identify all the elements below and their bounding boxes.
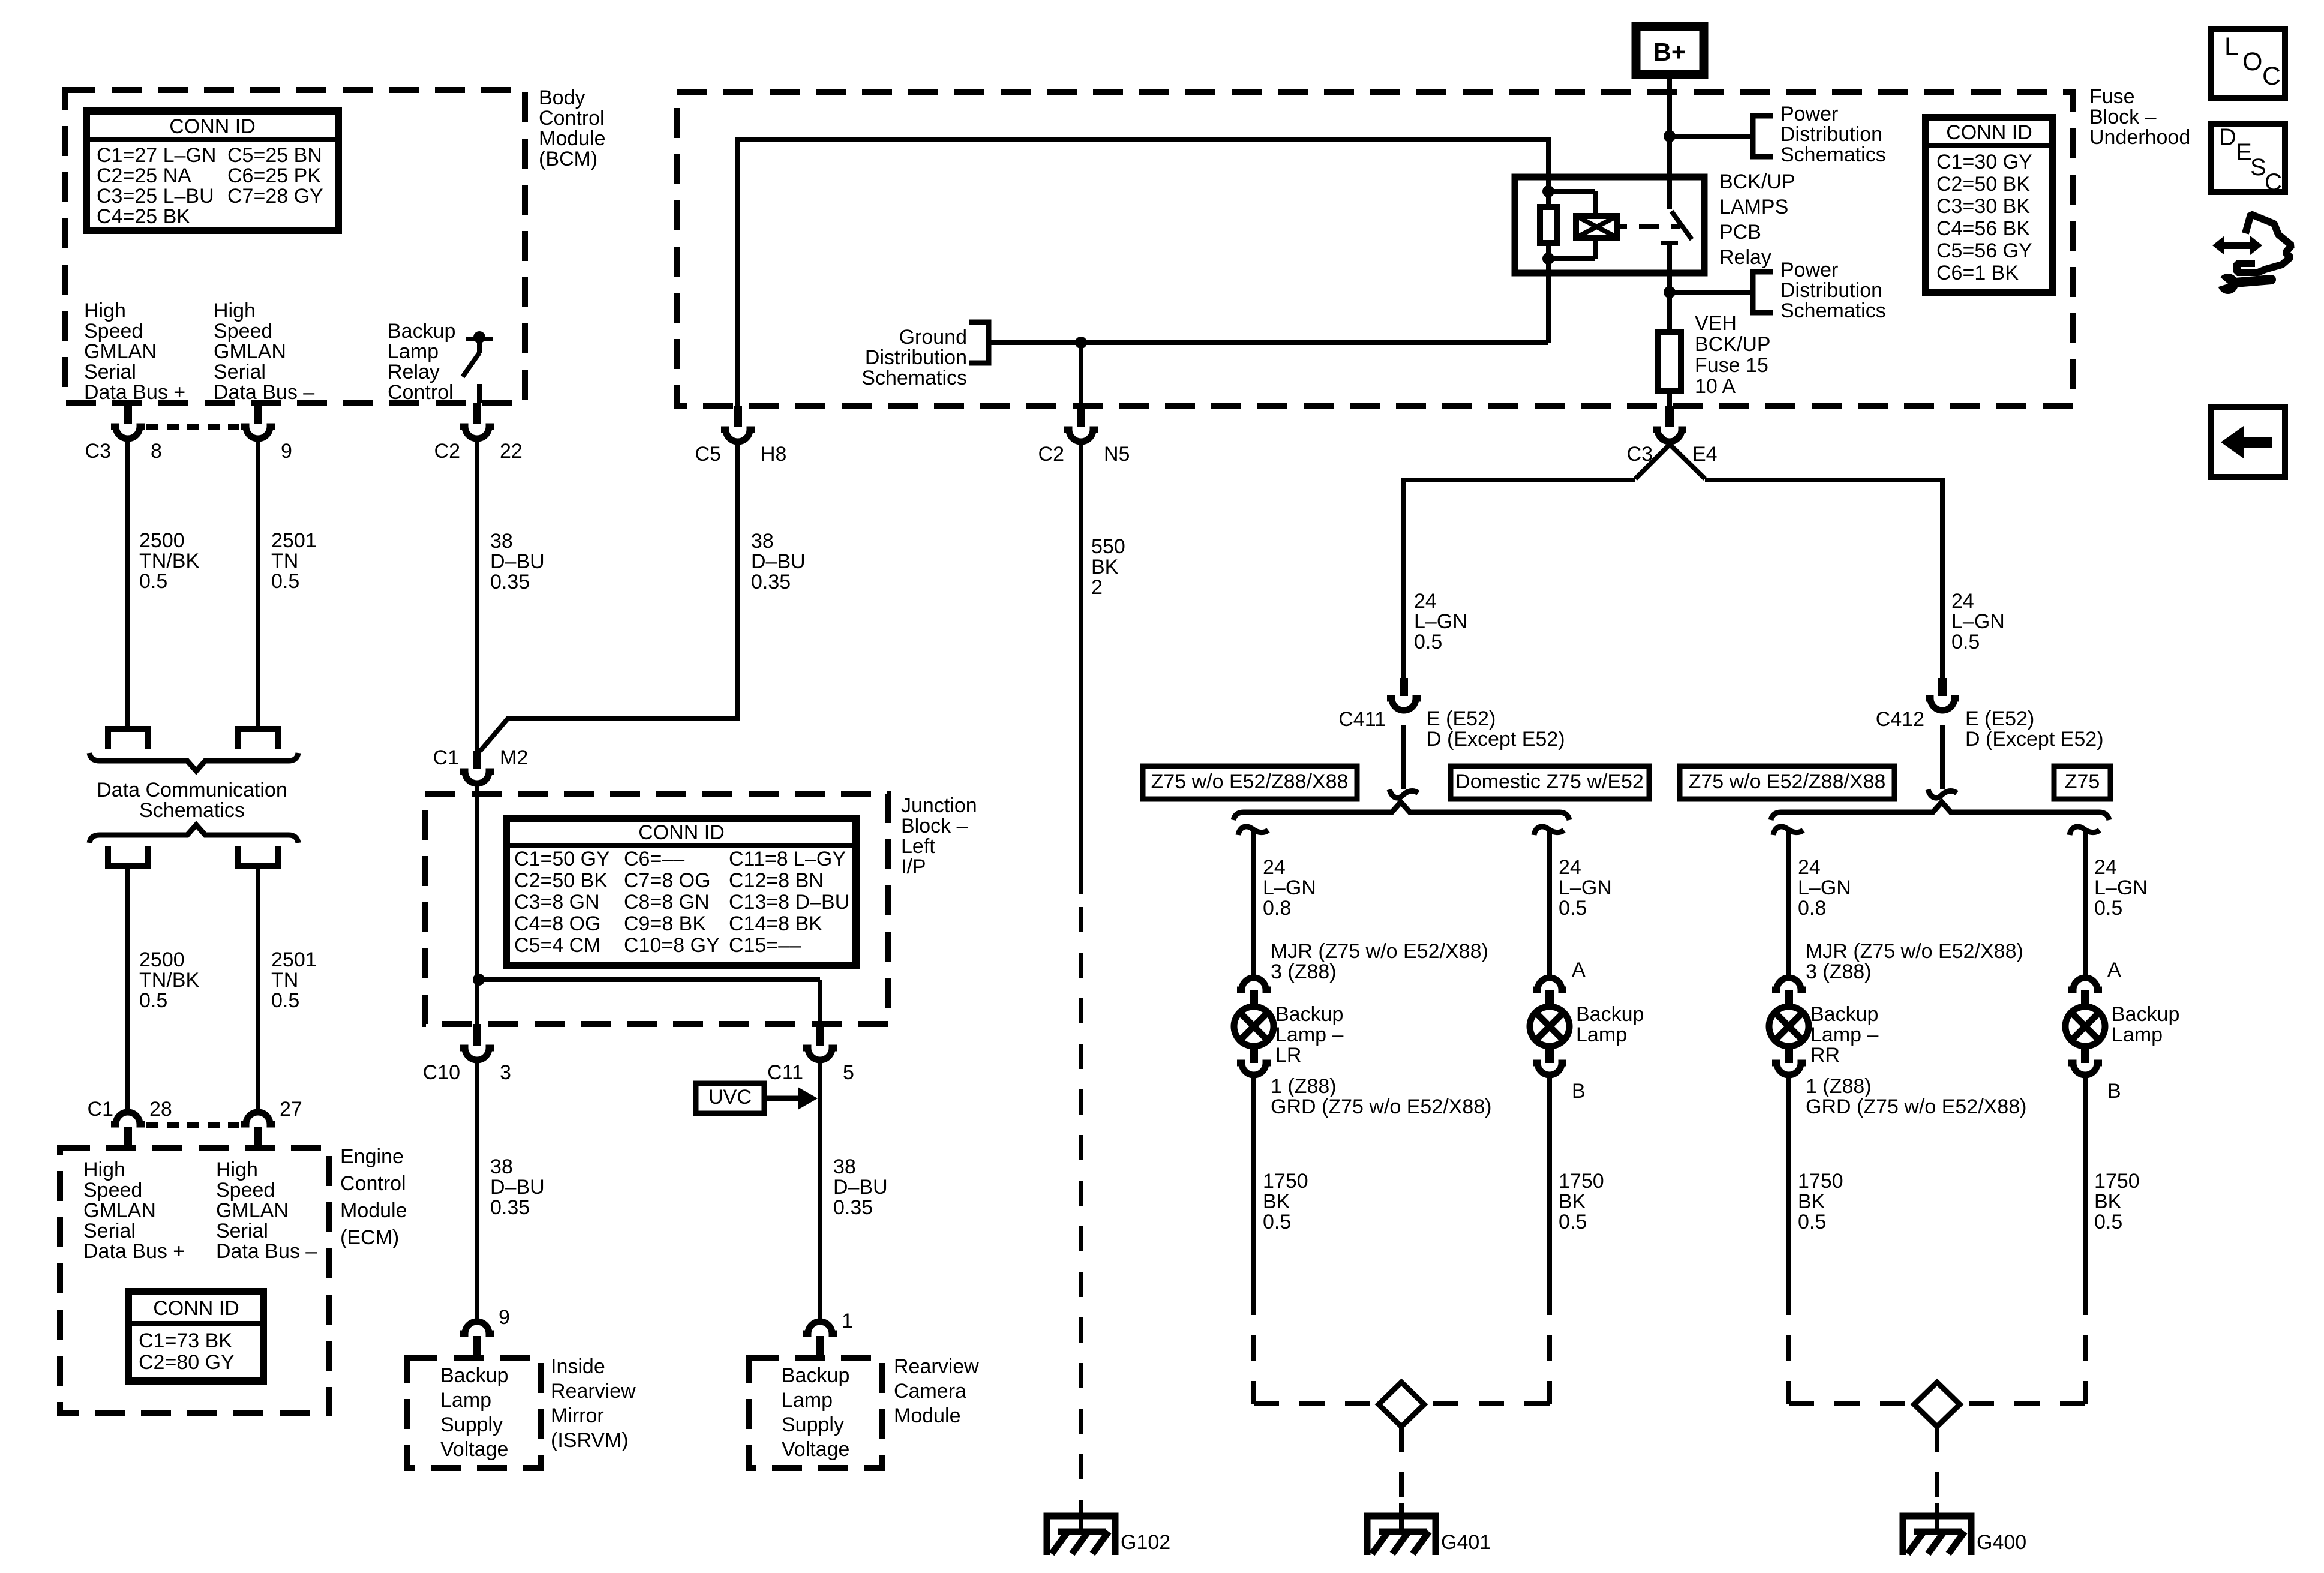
fuse block CONN ID table xyxy=(1926,118,2053,293)
svg-text:BCK/UP: BCK/UP xyxy=(1695,333,1771,356)
svg-text:Junction: Junction xyxy=(901,794,977,817)
svg-text:Lamp: Lamp xyxy=(782,1389,833,1412)
svg-text:C2: C2 xyxy=(1038,443,1064,466)
svg-text:Mirror: Mirror xyxy=(551,1404,604,1427)
svg-text:C6=1 BK: C6=1 BK xyxy=(1936,262,2019,284)
dashed connector link 8-9 xyxy=(146,424,239,430)
svg-text:Lamp –: Lamp – xyxy=(1810,1023,1878,1046)
connector C3 pin 8 (BCM) xyxy=(124,403,132,424)
svg-text:0.35: 0.35 xyxy=(490,1196,530,1219)
UVC arrow xyxy=(764,1096,801,1101)
svg-text:2501: 2501 xyxy=(271,948,317,971)
svg-text:Serial: Serial xyxy=(216,1220,268,1242)
svg-text:CONN ID: CONN ID xyxy=(169,115,256,138)
svg-text:Lamp: Lamp xyxy=(440,1389,491,1412)
svg-text:0.5: 0.5 xyxy=(1559,897,1587,920)
svg-text:C4=56 BK: C4=56 BK xyxy=(1936,217,2030,240)
svg-text:Z75 w/o E52/Z88/X88: Z75 w/o E52/Z88/X88 xyxy=(1689,770,1886,793)
connector C11 pin 5 (junction block) xyxy=(816,1024,824,1046)
backup lamp (domestic LR) xyxy=(1533,978,1566,990)
svg-text:GRD (Z75 w/o E52/X88): GRD (Z75 w/o E52/X88) xyxy=(1806,1095,2026,1118)
connector C3 pin E4 (fuse block) xyxy=(1665,406,1674,427)
camera dashed box: Backup Lamp Supply Voltage xyxy=(749,1358,882,1468)
junction block CONN ID table xyxy=(506,818,856,966)
svg-text:Speed: Speed xyxy=(83,1179,142,1202)
svg-text:MJR (Z75 w/o E52/X88): MJR (Z75 w/o E52/X88) xyxy=(1806,940,2023,963)
connector pin 1 (camera) xyxy=(816,1336,824,1358)
svg-text:0.5: 0.5 xyxy=(139,570,167,593)
svg-text:I/P: I/P xyxy=(901,855,926,878)
Junction Block - Left I/P dashed box xyxy=(425,794,888,1024)
svg-text:C4=8 OG: C4=8 OG xyxy=(514,912,601,935)
svg-text:0.8: 0.8 xyxy=(1263,897,1291,920)
relay coil xyxy=(1548,189,1595,194)
svg-text:L–GN: L–GN xyxy=(1263,876,1316,899)
X splice under E4 xyxy=(1635,430,1685,479)
svg-text:0.5: 0.5 xyxy=(2094,897,2122,920)
brace from Data Communication Schematics (lower) xyxy=(89,825,298,843)
svg-text:D (Except E52): D (Except E52) xyxy=(1965,728,2104,751)
svg-text:D–BU: D–BU xyxy=(833,1176,888,1199)
svg-text:E (E52): E (E52) xyxy=(1965,707,2034,730)
svg-text:Lamp: Lamp xyxy=(1576,1023,1627,1046)
svg-text:L–GN: L–GN xyxy=(1559,876,1612,899)
svg-text:B: B xyxy=(1572,1080,1586,1103)
svg-text:8: 8 xyxy=(151,440,162,463)
svg-text:Module: Module xyxy=(894,1404,961,1427)
wire 38 D-BU from fuse block C5/H8 xyxy=(480,441,738,751)
Body Control Module (BCM) dashed box xyxy=(65,90,525,403)
svg-text:Control: Control xyxy=(539,107,605,130)
svg-text:24: 24 xyxy=(1414,590,1437,613)
connector C412 xyxy=(1938,678,1947,696)
svg-text:C: C xyxy=(2265,169,2282,196)
connector C2 pin N5 (fuse block) xyxy=(1077,406,1085,427)
svg-text:Module: Module xyxy=(539,127,606,150)
svg-text:C1=50 GY: C1=50 GY xyxy=(514,848,610,870)
svg-text:D–BU: D–BU xyxy=(490,550,545,573)
svg-text:Distribution: Distribution xyxy=(1780,279,1882,302)
svg-text:Voltage: Voltage xyxy=(440,1438,508,1461)
wire 38 D-BU to ISRVM xyxy=(475,1061,479,1322)
Power Distribution Schematics bracket (lower) xyxy=(1753,272,1773,313)
dashed connector link 28-27 xyxy=(146,1122,239,1128)
node to power distribution xyxy=(1664,130,1676,142)
terminal bracket (bus - lower) xyxy=(238,846,278,866)
relay coil feed wire xyxy=(738,140,1548,406)
svg-text:24: 24 xyxy=(2094,856,2117,879)
svg-text:2: 2 xyxy=(1091,576,1103,599)
svg-text:TN: TN xyxy=(271,969,298,992)
svg-text:9: 9 xyxy=(499,1306,510,1329)
svg-text:Schematics: Schematics xyxy=(1780,299,1886,322)
svg-text:H8: H8 xyxy=(761,443,786,466)
svg-text:GMLAN: GMLAN xyxy=(214,340,286,363)
svg-text:0.5: 0.5 xyxy=(1798,1211,1826,1233)
svg-text:BK: BK xyxy=(1559,1190,1586,1213)
connector C1 pin M2 (junction block) xyxy=(473,751,481,769)
svg-text:24: 24 xyxy=(1798,856,1821,879)
svg-text:Schematics: Schematics xyxy=(861,367,967,389)
svg-text:C14=8 BK: C14=8 BK xyxy=(729,912,822,935)
svg-text:Backup: Backup xyxy=(388,320,455,343)
svg-text:Relay: Relay xyxy=(1719,246,1771,269)
wire 2501 TN (bus -) xyxy=(256,440,260,732)
svg-text:C411: C411 xyxy=(1338,708,1386,731)
svg-text:D (Except E52): D (Except E52) xyxy=(1427,728,1565,751)
svg-text:D–BU: D–BU xyxy=(751,550,806,573)
svg-text:Schematics: Schematics xyxy=(1780,143,1886,166)
svg-text:C6=––: C6=–– xyxy=(624,848,684,870)
svg-text:Power: Power xyxy=(1780,259,1838,281)
svg-text:0.5: 0.5 xyxy=(271,570,299,593)
svg-text:MJR (Z75 w/o E52/X88): MJR (Z75 w/o E52/X88) xyxy=(1271,940,1488,963)
svg-text:Domestic Z75 w/E52: Domestic Z75 w/E52 xyxy=(1455,770,1644,793)
svg-text:C11: C11 xyxy=(767,1061,803,1084)
svg-text:GMLAN: GMLAN xyxy=(83,1199,156,1222)
svg-text:Block –: Block – xyxy=(901,815,968,837)
svg-text:0.5: 0.5 xyxy=(139,989,167,1012)
svg-text:Left: Left xyxy=(901,835,935,858)
svg-text:Control: Control xyxy=(388,381,454,404)
svg-text:High: High xyxy=(214,299,256,322)
ground G102 xyxy=(1079,1503,1083,1533)
svg-text:BK: BK xyxy=(1798,1190,1825,1213)
svg-text:Voltage: Voltage xyxy=(782,1438,849,1461)
svg-text:C7=28 GY: C7=28 GY xyxy=(227,185,323,208)
svg-text:C1=27 L–GN: C1=27 L–GN xyxy=(97,144,216,167)
svg-text:High: High xyxy=(84,299,126,322)
svg-text:BK: BK xyxy=(1091,556,1119,578)
svg-text:Backup: Backup xyxy=(1275,1003,1343,1026)
terminal bracket (bus - upper) xyxy=(238,729,278,749)
svg-text:CONN ID: CONN ID xyxy=(638,821,725,844)
svg-text:0.5: 0.5 xyxy=(271,989,299,1012)
backup lamp (domestic RR) xyxy=(2068,978,2102,990)
ground distribution line xyxy=(989,340,1548,345)
wire 24 L-GN branch 1 xyxy=(1251,829,1256,975)
svg-text:Serial: Serial xyxy=(83,1220,136,1242)
wire 24 L-GN branch 2 xyxy=(1547,829,1552,975)
ECM CONN ID table xyxy=(128,1292,263,1381)
backup lamp RR xyxy=(1772,978,1806,990)
option box: Z75 w/o E52/Z88/X88 (left) xyxy=(1143,766,1357,799)
svg-text:Backup: Backup xyxy=(1576,1003,1644,1026)
svg-text:GMLAN: GMLAN xyxy=(84,340,157,363)
svg-text:Schematics: Schematics xyxy=(139,799,245,822)
connector C5 pin H8 (fuse block) xyxy=(734,406,742,427)
svg-text:(ECM): (ECM) xyxy=(340,1226,399,1249)
svg-text:UVC: UVC xyxy=(708,1086,752,1109)
wire 2500 TN/BK to ECM xyxy=(125,866,130,1115)
svg-text:Engine: Engine xyxy=(340,1145,404,1168)
svg-text:G400: G400 xyxy=(1977,1531,2026,1554)
svg-text:Z75: Z75 xyxy=(2065,770,2100,793)
svg-text:0.35: 0.35 xyxy=(490,571,530,593)
svg-text:0.35: 0.35 xyxy=(833,1196,873,1219)
svg-text:1 (Z88): 1 (Z88) xyxy=(1271,1075,1337,1098)
svg-text:C10=8 GY: C10=8 GY xyxy=(624,934,720,957)
svg-text:Inside: Inside xyxy=(551,1355,605,1378)
svg-text:3 (Z88): 3 (Z88) xyxy=(1271,960,1337,983)
svg-text:2501: 2501 xyxy=(271,529,317,552)
svg-text:O: O xyxy=(2242,47,2262,76)
junction node xyxy=(473,974,485,986)
svg-text:C10: C10 xyxy=(423,1061,460,1084)
svg-text:C2=50 BK: C2=50 BK xyxy=(514,869,608,892)
svg-text:C13=8 D–BU: C13=8 D–BU xyxy=(729,891,849,914)
svg-text:38: 38 xyxy=(833,1155,856,1178)
wire relay to fuse xyxy=(1667,273,1672,333)
svg-text:Body: Body xyxy=(539,86,585,109)
option box: Domestic Z75 w/E52 xyxy=(1451,766,1649,799)
brace right lamp pair xyxy=(1771,802,2109,820)
svg-text:C: C xyxy=(2262,62,2281,91)
svg-text:0.5: 0.5 xyxy=(1263,1211,1291,1233)
wire 24 L-GN branch 3 xyxy=(1786,829,1791,975)
svg-text:Fuse: Fuse xyxy=(2089,85,2135,108)
wire 2500 TN/BK (bus +) xyxy=(125,440,130,732)
terminal bracket (bus + lower) xyxy=(108,846,148,866)
svg-text:C6=25 PK: C6=25 PK xyxy=(227,164,321,187)
svg-text:C2: C2 xyxy=(434,440,460,463)
svg-text:L–GN: L–GN xyxy=(1951,610,2005,633)
option box: Z75 xyxy=(2054,766,2110,799)
svg-text:C15=––: C15=–– xyxy=(729,934,801,957)
svg-text:N5: N5 xyxy=(1104,443,1130,466)
svg-text:Distribution: Distribution xyxy=(1780,123,1882,146)
svg-text:C1: C1 xyxy=(433,746,459,769)
ground G400 xyxy=(1935,1503,1939,1533)
svg-text:VEH: VEH xyxy=(1695,312,1737,335)
svg-text:Data Bus –: Data Bus – xyxy=(216,1240,317,1263)
brace left lamp pair xyxy=(1233,802,1569,820)
svg-text:Lamp: Lamp xyxy=(2112,1023,2163,1046)
DESC icon box xyxy=(2211,124,2285,192)
svg-text:550: 550 xyxy=(1091,535,1125,558)
svg-text:L–GN: L–GN xyxy=(1414,610,1467,633)
svg-text:High: High xyxy=(83,1158,125,1181)
svg-text:Underhood: Underhood xyxy=(2089,126,2190,149)
BCM CONN ID table xyxy=(86,111,338,230)
svg-text:Data Bus +: Data Bus + xyxy=(83,1240,185,1263)
svg-text:Speed: Speed xyxy=(214,320,272,343)
svg-text:Supply: Supply xyxy=(440,1413,503,1436)
splice diamond (G401 feed) xyxy=(1379,1382,1424,1427)
ground G401 xyxy=(1399,1503,1404,1533)
wire 1750 BK 0.5 (3) xyxy=(1786,1076,1791,1290)
svg-text:E: E xyxy=(2236,139,2252,166)
svg-text:PCB: PCB xyxy=(1719,221,1761,244)
wire C412 to brace xyxy=(1940,725,1945,789)
svg-text:C1: C1 xyxy=(88,1098,113,1121)
svg-text:Distribution: Distribution xyxy=(865,346,967,369)
connector pin 9 (BCM) xyxy=(254,403,262,424)
terminal bracket (bus + upper) xyxy=(108,729,148,749)
svg-text:2500: 2500 xyxy=(139,529,185,552)
svg-text:Data Bus –: Data Bus – xyxy=(214,381,314,404)
svg-text:LR: LR xyxy=(1275,1044,1301,1067)
svg-text:9: 9 xyxy=(281,440,292,463)
svg-text:S: S xyxy=(2250,154,2266,181)
branch hook 2 xyxy=(1534,827,1564,835)
Ground Distribution Schematics bracket xyxy=(969,322,989,363)
svg-text:C2=50 BK: C2=50 BK xyxy=(1936,173,2030,196)
connector C10 pin 3 (junction block) xyxy=(473,1024,481,1046)
svg-text:E4: E4 xyxy=(1692,443,1718,466)
brace to Data Communication Schematics (upper) xyxy=(89,753,298,771)
svg-text:Z75 w/o E52/Z88/X88: Z75 w/o E52/Z88/X88 xyxy=(1151,770,1349,793)
svg-text:Backup: Backup xyxy=(1810,1003,1878,1026)
svg-text:C5=56 GY: C5=56 GY xyxy=(1936,239,2032,262)
branch hook 3 xyxy=(1773,827,1803,835)
svg-text:Rearview: Rearview xyxy=(894,1355,979,1378)
svg-text:TN/BK: TN/BK xyxy=(139,969,199,992)
connector C1 pin 28 (ECM) xyxy=(124,1127,132,1148)
svg-text:24: 24 xyxy=(1263,856,1286,879)
svg-text:Block –: Block – xyxy=(2089,106,2157,128)
wire 1750 BK 0.5 (4) xyxy=(2083,1076,2088,1290)
svg-text:RR: RR xyxy=(1810,1044,1840,1067)
svg-text:C2=80 GY: C2=80 GY xyxy=(139,1351,235,1374)
svg-text:CONN ID: CONN ID xyxy=(153,1297,239,1320)
svg-text:Power: Power xyxy=(1780,103,1838,125)
wire inside junction block xyxy=(475,785,479,1024)
svg-text:Ground: Ground xyxy=(899,326,967,349)
svg-text:(BCM): (BCM) xyxy=(539,148,597,170)
ISRVM dashed box: Backup Lamp Supply Voltage xyxy=(407,1358,541,1468)
wire 38 D-BU to camera xyxy=(818,1061,822,1322)
svg-text:(ISRVM): (ISRVM) xyxy=(551,1429,629,1452)
back arrow icon box xyxy=(2211,407,2285,477)
svg-text:5: 5 xyxy=(843,1061,854,1084)
svg-text:C5: C5 xyxy=(695,443,721,466)
relay coil low side to ground line xyxy=(1546,273,1551,343)
relay coil resistor xyxy=(1546,177,1551,207)
svg-text:G102: G102 xyxy=(1121,1531,1170,1554)
svg-text:28: 28 xyxy=(149,1098,172,1121)
connector pin 9 (ISRVM) xyxy=(473,1336,481,1358)
wire to C2/N5 xyxy=(1079,343,1083,406)
svg-text:0.8: 0.8 xyxy=(1798,897,1826,920)
svg-text:Data Communication: Data Communication xyxy=(97,779,287,801)
svg-text:1: 1 xyxy=(842,1310,853,1332)
splice diamond (G400 feed) xyxy=(1914,1382,1960,1427)
UVC callout box xyxy=(696,1083,764,1113)
svg-text:Lamp –: Lamp – xyxy=(1275,1023,1343,1046)
Power Distribution Schematics bracket (upper) xyxy=(1753,116,1773,157)
connector C411 xyxy=(1400,678,1408,696)
svg-text:C3=8 GN: C3=8 GN xyxy=(514,891,600,914)
svg-text:22: 22 xyxy=(500,440,523,463)
wire 24 L-GN branch 4 xyxy=(2083,829,2088,975)
connector C2 pin 22 (BCM) xyxy=(473,403,481,424)
svg-text:A: A xyxy=(2107,959,2121,981)
svg-text:Supply: Supply xyxy=(782,1413,844,1436)
svg-text:C1=73 BK: C1=73 BK xyxy=(139,1329,232,1352)
svg-text:A: A xyxy=(1572,959,1586,981)
svg-text:C11=8 L–GY: C11=8 L–GY xyxy=(729,848,846,870)
svg-text:M2: M2 xyxy=(500,746,528,769)
wire C411 to brace xyxy=(1401,725,1406,789)
Engine Control Module (ECM) dashed box xyxy=(60,1148,329,1413)
svg-text:38: 38 xyxy=(490,1155,513,1178)
svg-text:E (E52): E (E52) xyxy=(1427,707,1496,730)
svg-text:C2=25 NA: C2=25 NA xyxy=(97,164,191,187)
svg-text:1 (Z88): 1 (Z88) xyxy=(1806,1075,1872,1098)
svg-text:GMLAN: GMLAN xyxy=(216,1199,289,1222)
svg-text:2500: 2500 xyxy=(139,948,185,971)
svg-text:C12=8 BN: C12=8 BN xyxy=(729,869,824,892)
svg-text:Lamp: Lamp xyxy=(388,340,439,363)
svg-text:10 A: 10 A xyxy=(1695,375,1736,398)
svg-text:Rearview: Rearview xyxy=(551,1380,636,1403)
svg-text:Control: Control xyxy=(340,1172,406,1195)
svg-text:BK: BK xyxy=(1263,1190,1290,1213)
svg-text:C412: C412 xyxy=(1876,708,1924,731)
svg-text:Speed: Speed xyxy=(84,320,143,343)
svg-text:C3: C3 xyxy=(85,440,111,463)
svg-text:38: 38 xyxy=(751,530,774,553)
svg-text:C3=25 L–BU: C3=25 L–BU xyxy=(97,185,214,208)
BCM internal relay-driver switch xyxy=(466,337,493,341)
svg-text:C4=25 BK: C4=25 BK xyxy=(97,205,190,228)
svg-text:Module: Module xyxy=(340,1199,407,1222)
svg-text:24: 24 xyxy=(1951,590,1974,613)
svg-text:B: B xyxy=(2107,1080,2121,1103)
svg-text:L: L xyxy=(2224,32,2239,61)
connector pin 27 (ECM) xyxy=(254,1127,262,1148)
wire B+ to relay xyxy=(1667,74,1672,179)
svg-text:Backup: Backup xyxy=(782,1364,849,1387)
LOC icon box xyxy=(2211,29,2285,98)
B+ feed box xyxy=(1636,26,1704,74)
svg-text:D–BU: D–BU xyxy=(490,1176,545,1199)
svg-text:0.35: 0.35 xyxy=(751,571,791,593)
svg-text:0.5: 0.5 xyxy=(1414,631,1442,653)
svg-text:BCK/UP: BCK/UP xyxy=(1719,170,1795,193)
svg-text:27: 27 xyxy=(280,1098,302,1121)
VEH BCK/UP Fuse 15 10A xyxy=(1658,332,1681,391)
svg-text:Relay: Relay xyxy=(388,361,440,383)
relay actuator dashed link xyxy=(1617,224,1627,229)
svg-text:1750: 1750 xyxy=(1798,1170,1843,1193)
svg-text:3 (Z88): 3 (Z88) xyxy=(1806,960,1872,983)
svg-text:Serial: Serial xyxy=(84,361,136,383)
relay switch xyxy=(1667,179,1672,209)
Fuse Block - Underhood dashed box xyxy=(677,92,2073,406)
branch hook 1 xyxy=(1238,827,1268,835)
svg-text:Serial: Serial xyxy=(214,361,266,383)
svg-text:3: 3 xyxy=(500,1061,511,1084)
svg-text:BK: BK xyxy=(2094,1190,2122,1213)
branch hook 4 xyxy=(2070,827,2100,835)
svg-text:C8=8 GN: C8=8 GN xyxy=(624,891,710,914)
svg-text:G401: G401 xyxy=(1441,1531,1491,1554)
svg-text:TN/BK: TN/BK xyxy=(139,550,199,572)
dashed wires to G401 splice xyxy=(1254,1401,1379,1406)
wrench-arrow icon xyxy=(2222,242,2252,249)
wire 1750 BK 0.5 (2) xyxy=(1547,1076,1552,1290)
svg-text:GRD (Z75 w/o E52/X88): GRD (Z75 w/o E52/X88) xyxy=(1271,1095,1491,1118)
backup lamp LR xyxy=(1237,978,1271,990)
BCK/UP LAMPS PCB Relay box xyxy=(1515,177,1704,273)
svg-text:Backup: Backup xyxy=(440,1364,508,1387)
svg-text:38: 38 xyxy=(490,530,513,553)
svg-text:LAMPS: LAMPS xyxy=(1719,196,1788,218)
wire 2501 TN to ECM xyxy=(256,866,260,1115)
svg-text:C7=8 OG: C7=8 OG xyxy=(624,869,711,892)
